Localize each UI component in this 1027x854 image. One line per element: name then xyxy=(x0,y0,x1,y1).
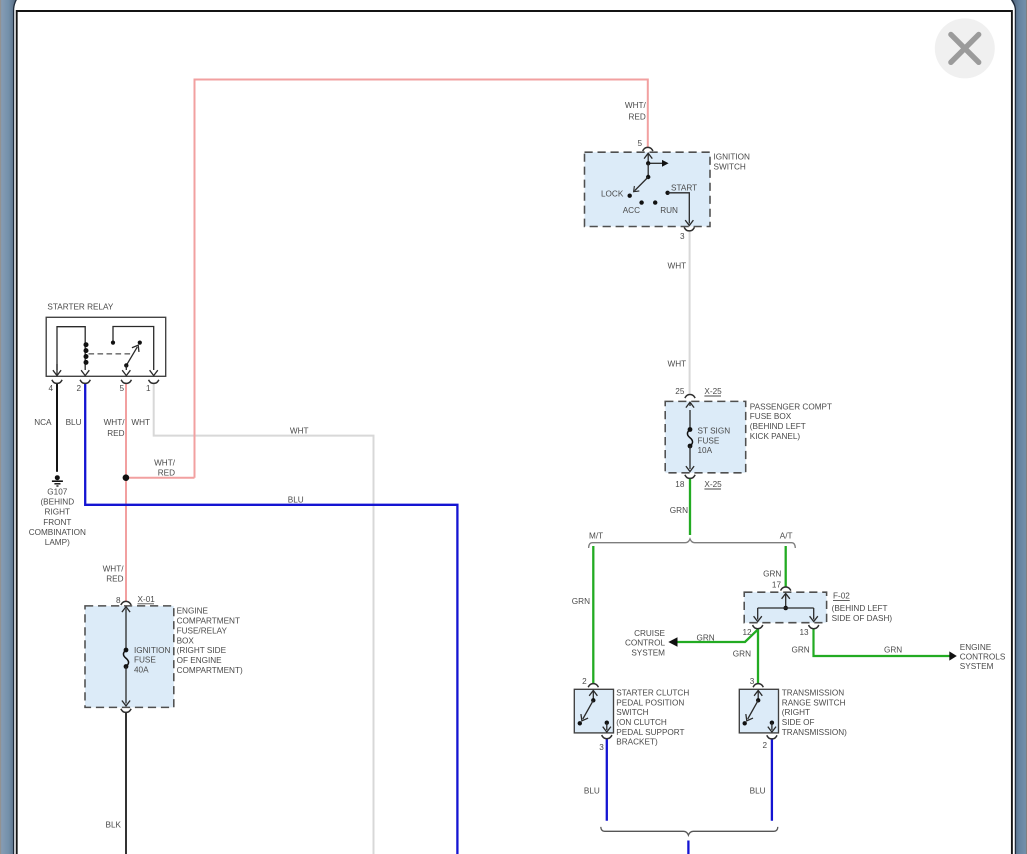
contact dot START xyxy=(665,191,669,195)
wire BLU below merge brace to page bottom xyxy=(687,841,689,854)
svg-text:RED: RED xyxy=(629,113,646,122)
svg-text:2: 2 xyxy=(76,384,81,393)
relay actuating dashed link xyxy=(89,353,133,355)
svg-text:GRN: GRN xyxy=(884,646,902,655)
svg-text:(BEHIND LEFT: (BEHIND LEFT xyxy=(832,604,888,613)
svg-text:WHT/: WHT/ xyxy=(104,418,126,427)
relay pin arrows xyxy=(56,364,58,375)
svg-text:CONTROL: CONTROL xyxy=(625,639,665,648)
arrowhead to cruise control system xyxy=(668,637,677,646)
svg-text:RED: RED xyxy=(106,574,123,583)
svg-text:2: 2 xyxy=(763,741,768,750)
svg-text:5: 5 xyxy=(637,139,642,148)
junction dot WHT/RED xyxy=(123,474,130,481)
pin 8 cup xyxy=(121,601,131,605)
svg-text:3: 3 xyxy=(680,232,685,241)
wire BLU from relay pin2 down, right, down to page bottom xyxy=(85,384,457,854)
contact dot LOCK xyxy=(628,194,632,198)
transmission range switch box xyxy=(739,689,778,733)
svg-text:RANGE SWITCH: RANGE SWITCH xyxy=(782,698,846,707)
wire BLU clutch switch pin3 down to brace xyxy=(606,739,608,821)
svg-text:IGNITION: IGNITION xyxy=(714,153,750,162)
svg-text:FRONT: FRONT xyxy=(43,518,71,527)
wire WHT/RED pink: junction horizontal xyxy=(126,477,195,479)
svg-text:WHT: WHT xyxy=(290,427,309,436)
svg-text:12: 12 xyxy=(742,628,752,637)
svg-text:START: START xyxy=(671,183,697,192)
svg-text:8: 8 xyxy=(116,596,121,605)
svg-text:F-02: F-02 xyxy=(833,592,850,601)
ignition switch pin3 cup xyxy=(684,227,694,231)
pin 13 cup xyxy=(809,625,819,629)
starter relay box xyxy=(46,317,166,376)
svg-text:GRN: GRN xyxy=(763,570,781,579)
close button xyxy=(935,18,995,78)
ignition switch box xyxy=(585,152,711,226)
svg-text:TRANSMISSION): TRANSMISSION) xyxy=(782,728,847,737)
svg-text:BOX: BOX xyxy=(177,636,195,645)
svg-text:OF ENGINE: OF ENGINE xyxy=(177,656,223,665)
ignition switch pin5 cup xyxy=(643,147,653,151)
wire GRN F-02 pin12 to cruise control arrow and down to trans switch pin3 xyxy=(677,629,758,683)
M/T A/T splitter brace xyxy=(589,539,796,548)
pin 17 cup xyxy=(781,587,791,591)
ignition switch START wire to pin3 xyxy=(668,193,690,224)
svg-text:GRN: GRN xyxy=(670,506,688,515)
svg-text:SWITCH: SWITCH xyxy=(714,162,746,171)
svg-text:FUSE: FUSE xyxy=(698,436,720,445)
wire WHT from relay pin1 down, right, down to page bottom xyxy=(154,384,374,854)
svg-text:2: 2 xyxy=(582,677,587,686)
svg-text:WHT: WHT xyxy=(668,360,687,369)
bottom cup xyxy=(121,709,131,713)
F-02 box xyxy=(744,592,826,623)
svg-text:ENGINE: ENGINE xyxy=(177,607,209,616)
svg-text:CRUISE: CRUISE xyxy=(634,629,665,638)
svg-text:CONTROLS: CONTROLS xyxy=(960,652,1006,661)
svg-text:(RIGHT: (RIGHT xyxy=(782,708,810,717)
svg-text:RED: RED xyxy=(107,429,124,438)
wire WHT from ignition switch pin3 to ST SIGN fuse pin 25 xyxy=(689,231,691,393)
clutch switch arrow up xyxy=(592,691,594,700)
relay coil loop xyxy=(57,327,85,370)
svg-text:(BEHIND: (BEHIND xyxy=(40,498,74,507)
svg-text:KICK PANEL): KICK PANEL) xyxy=(750,432,801,441)
relay pin cups xyxy=(52,380,62,384)
ground symbol G107 xyxy=(55,475,60,480)
svg-text:X-25: X-25 xyxy=(704,387,722,396)
svg-text:RED: RED xyxy=(158,468,175,477)
svg-text:RUN: RUN xyxy=(660,206,678,215)
svg-text:3: 3 xyxy=(599,743,604,752)
relay contact loop xyxy=(113,327,154,371)
pin 2 cup xyxy=(588,684,598,688)
svg-text:WHT/: WHT/ xyxy=(103,565,125,574)
svg-text:GRN: GRN xyxy=(697,634,715,643)
svg-text:SWITCH: SWITCH xyxy=(616,708,648,717)
svg-text:BLU: BLU xyxy=(288,496,304,505)
svg-text:1: 1 xyxy=(146,384,151,393)
contact dot ACC xyxy=(639,200,643,204)
svg-text:SIDE OF: SIDE OF xyxy=(782,718,815,727)
clutch switch lever xyxy=(583,700,594,719)
svg-text:10A: 10A xyxy=(698,446,713,455)
relay coil bumps xyxy=(84,342,89,347)
relay contact dot left xyxy=(111,341,115,345)
pin 3 cup xyxy=(753,684,763,688)
trans switch lever xyxy=(748,700,759,719)
wire BLU trans switch pin2 down to brace xyxy=(771,739,773,821)
fuse ST SIGN element xyxy=(689,410,691,430)
svg-text:40A: 40A xyxy=(134,666,149,675)
ignition switch common dot xyxy=(646,161,650,165)
pin 18 cup xyxy=(685,475,695,479)
svg-text:25: 25 xyxy=(675,387,685,396)
svg-text:18: 18 xyxy=(675,480,685,489)
svg-text:WHT: WHT xyxy=(668,262,687,271)
svg-text:COMBINATION: COMBINATION xyxy=(29,528,86,537)
clutch switch output contact xyxy=(605,721,609,725)
pin 25 cup xyxy=(685,395,695,399)
svg-text:ENGINE: ENGINE xyxy=(960,643,992,652)
passenger compt fuse box xyxy=(665,401,746,472)
svg-text:4: 4 xyxy=(48,384,53,393)
svg-text:SYSTEM: SYSTEM xyxy=(960,662,994,671)
wire BLK from relay pin4 to ground G107 xyxy=(56,384,58,472)
svg-text:SYSTEM: SYSTEM xyxy=(631,648,665,657)
ignition switch right arrow xyxy=(648,162,662,164)
svg-text:NCA: NCA xyxy=(34,418,52,427)
contact dot RUN xyxy=(653,200,657,204)
svg-text:FUSE: FUSE xyxy=(134,656,156,665)
svg-text:ACC: ACC xyxy=(623,206,640,215)
fuse IGNITION element xyxy=(122,607,130,612)
svg-text:PEDAL POSITION: PEDAL POSITION xyxy=(616,698,684,707)
svg-text:FUSE BOX: FUSE BOX xyxy=(750,412,792,421)
wire WHT/RED pink: top run to ignition switch pin 5 xyxy=(195,80,648,478)
svg-text:WHT: WHT xyxy=(131,418,150,427)
ignition switch pivot dot xyxy=(646,175,650,179)
svg-text:LOCK: LOCK xyxy=(601,190,624,199)
svg-text:X-01: X-01 xyxy=(138,595,156,604)
svg-text:BLU: BLU xyxy=(750,787,766,796)
svg-text:WHT/: WHT/ xyxy=(154,458,176,467)
relay lever pivot dot xyxy=(124,363,128,367)
svg-text:(ON CLUTCH: (ON CLUTCH xyxy=(616,718,667,727)
wire GRN M/T branch down to clutch switch pin2 xyxy=(592,546,594,683)
left binder bar xyxy=(1,0,17,854)
svg-text:IGNITION: IGNITION xyxy=(134,646,170,655)
svg-text:TRANSMISSION: TRANSMISSION xyxy=(782,689,844,698)
svg-text:5: 5 xyxy=(119,384,124,393)
wire GRN A/T branch down to F-02 pin17 xyxy=(785,546,787,587)
svg-text:RIGHT: RIGHT xyxy=(45,508,70,517)
svg-text:SIDE OF DASH): SIDE OF DASH) xyxy=(832,614,893,623)
svg-text:(RIGHT SIDE: (RIGHT SIDE xyxy=(177,646,227,655)
F-02 internal junction xyxy=(782,593,790,598)
svg-text:BLU: BLU xyxy=(584,787,600,796)
svg-text:17: 17 xyxy=(772,581,782,590)
svg-text:G107: G107 xyxy=(47,488,67,497)
starter clutch pedal position switch box xyxy=(574,689,613,733)
merge brace xyxy=(601,827,778,835)
engine compartment fuse/relay box xyxy=(85,606,174,708)
svg-text:LAMP): LAMP) xyxy=(45,538,70,547)
svg-text:BLU: BLU xyxy=(66,418,82,427)
svg-text:STARTER CLUTCH: STARTER CLUTCH xyxy=(616,689,689,698)
svg-text:ST SIGN: ST SIGN xyxy=(698,426,731,435)
ignition switch stem xyxy=(647,163,649,177)
svg-text:BRACKET): BRACKET) xyxy=(616,738,658,747)
ignition switch lever to LOCK xyxy=(635,177,649,191)
trans switch arrow up xyxy=(757,691,759,700)
wire BLK from engine fuse box down to page bottom xyxy=(125,713,127,854)
relay pin5 stub xyxy=(125,365,127,370)
svg-text:13: 13 xyxy=(799,628,809,637)
svg-text:M/T: M/T xyxy=(589,532,603,541)
svg-text:A/T: A/T xyxy=(780,532,793,541)
svg-text:GRN: GRN xyxy=(572,597,590,606)
svg-text:PEDAL SUPPORT: PEDAL SUPPORT xyxy=(616,728,684,737)
svg-text:COMPARTMENT): COMPARTMENT) xyxy=(177,666,243,675)
wire GRN F-02 pin13 right to engine controls arrow xyxy=(814,629,950,656)
right binder bar xyxy=(1011,0,1027,854)
wire GRN from ST SIGN fuse pin18 to M/T-A/T brace xyxy=(689,479,691,536)
svg-text:WHT/: WHT/ xyxy=(625,101,647,110)
svg-text:3: 3 xyxy=(750,677,755,686)
trans switch output contact xyxy=(770,721,774,725)
svg-text:X-25: X-25 xyxy=(704,480,722,489)
relay switch lever xyxy=(126,347,137,366)
pin 2 cup xyxy=(767,735,777,739)
pin 12 cup xyxy=(753,625,763,629)
svg-text:FUSE/RELAY: FUSE/RELAY xyxy=(177,626,228,635)
relay contact dot right xyxy=(138,341,142,345)
svg-text:BLK: BLK xyxy=(106,821,122,830)
svg-text:(BEHIND LEFT: (BEHIND LEFT xyxy=(750,422,806,431)
svg-text:GRN: GRN xyxy=(733,649,751,658)
arrowhead to engine controls system xyxy=(949,651,957,660)
ignition switch common arrow up xyxy=(647,154,649,163)
wire WHT/RED pink: relay pin5 down through junction to fuse box pin 8 xyxy=(125,384,127,602)
svg-text:STARTER RELAY: STARTER RELAY xyxy=(47,303,114,312)
svg-text:COMPARTMENT: COMPARTMENT xyxy=(177,617,240,626)
svg-text:PASSENGER COMPT: PASSENGER COMPT xyxy=(750,402,832,411)
pin 3 cup xyxy=(602,735,612,739)
svg-text:GRN: GRN xyxy=(791,645,809,654)
